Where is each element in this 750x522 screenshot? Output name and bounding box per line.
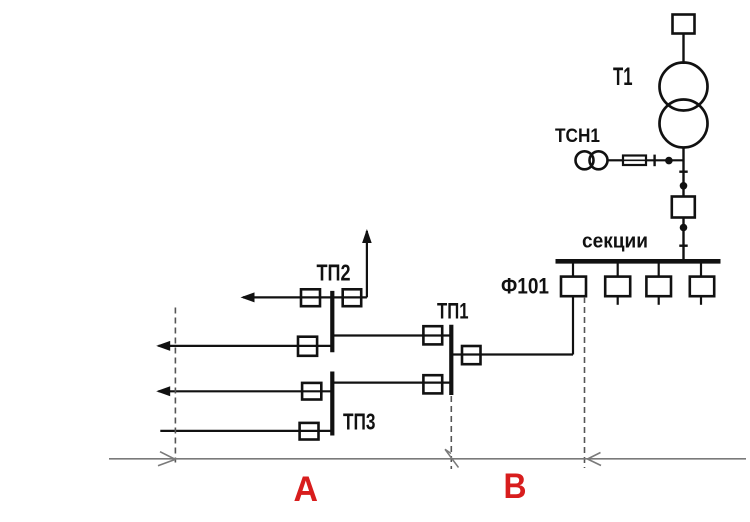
stub to feeder square F101 bbox=[572, 264, 574, 277]
junction dot on TCH1 branch bbox=[665, 157, 673, 165]
cursor mark at A/B boundary bbox=[445, 449, 459, 467]
wire: TCH1 to fuse bbox=[608, 159, 624, 161]
wire TP2 middle row with left arrow bbox=[156, 341, 330, 351]
dashed boundary line below F101 bbox=[584, 297, 586, 468]
dashed boundary line left bbox=[174, 308, 176, 463]
feeder square 3 bbox=[646, 277, 671, 297]
wire TP2 top row with left arrow bbox=[241, 292, 367, 302]
svg-text:В: В bbox=[504, 467, 527, 506]
stub to square 2 bbox=[617, 264, 619, 277]
busbar (sektsii) bbox=[556, 259, 721, 264]
wire TP3 upper-left row with arrow bbox=[156, 386, 330, 396]
feeder square F101 bbox=[561, 277, 586, 297]
wire TP2 to TP1 bbox=[334, 334, 450, 336]
dashed boundary line below TP1 bbox=[450, 396, 452, 469]
svg-text:Ф101: Ф101 bbox=[501, 274, 549, 299]
grid-source square (top) bbox=[673, 15, 695, 34]
tick on main line bbox=[679, 170, 687, 172]
stub to square 4 bbox=[700, 264, 702, 277]
wire TP3 bottom row bbox=[160, 430, 330, 432]
feeder F101 wire down bbox=[572, 296, 574, 354]
dimension arrow left at B end bbox=[588, 453, 602, 466]
wire TP3 to TP1 bbox=[334, 382, 450, 384]
up arrow from TP2 bbox=[362, 229, 372, 297]
breaker square (main) bbox=[672, 197, 695, 218]
switch square TP2 middle-left bbox=[298, 337, 317, 356]
switch square left of TP1 (lower) bbox=[423, 375, 442, 393]
stub to square 3 bbox=[658, 264, 660, 277]
switch square TP2 top-left bbox=[301, 289, 320, 306]
stub below square 4 bbox=[700, 296, 702, 305]
feeder square 4 bbox=[690, 277, 714, 297]
switch square right of TP1 bbox=[462, 346, 481, 364]
svg-text:секции: секции bbox=[582, 229, 648, 252]
junction dot bbox=[680, 224, 688, 232]
feeder F101 wire to TP1 bbox=[453, 353, 573, 355]
switch square left of TP1 (upper) bbox=[423, 326, 442, 344]
feeder square 2 bbox=[605, 277, 630, 297]
svg-text:ТП2: ТП2 bbox=[317, 260, 351, 286]
stub below square 3 bbox=[658, 296, 660, 305]
wire: T1 to breaker bbox=[682, 148, 684, 198]
busbar TP2 bbox=[330, 291, 334, 352]
wire: top square to T1 bbox=[682, 34, 684, 65]
svg-text:Т1: Т1 bbox=[613, 63, 633, 91]
transformer T1 bbox=[660, 63, 708, 148]
stub below square 2 bbox=[617, 296, 619, 305]
dimension line bbox=[109, 458, 746, 460]
wire: breaker to busbar bbox=[682, 218, 684, 260]
switch square TP2 top-right bbox=[343, 289, 362, 306]
switch square TP3 upper-left bbox=[302, 383, 321, 400]
tick on main line bbox=[679, 244, 687, 246]
svg-text:ТП1: ТП1 bbox=[437, 299, 469, 324]
busbar TP3 bbox=[330, 372, 334, 436]
transformer TCH1 (aux) bbox=[576, 151, 608, 169]
svg-text:А: А bbox=[294, 470, 319, 509]
busbar TP1 bbox=[449, 325, 453, 395]
disconnect tick on TCH1 branch bbox=[653, 155, 655, 167]
dimension arrow right at A start bbox=[158, 452, 175, 466]
junction dot bbox=[680, 182, 688, 190]
wire: fuse to main line bbox=[646, 159, 684, 161]
svg-text:ТП3: ТП3 bbox=[343, 409, 376, 435]
fuse FU1 bbox=[623, 156, 646, 166]
switch square TP3 bottom bbox=[300, 423, 319, 440]
svg-text:ТСН1: ТСН1 bbox=[555, 125, 600, 147]
